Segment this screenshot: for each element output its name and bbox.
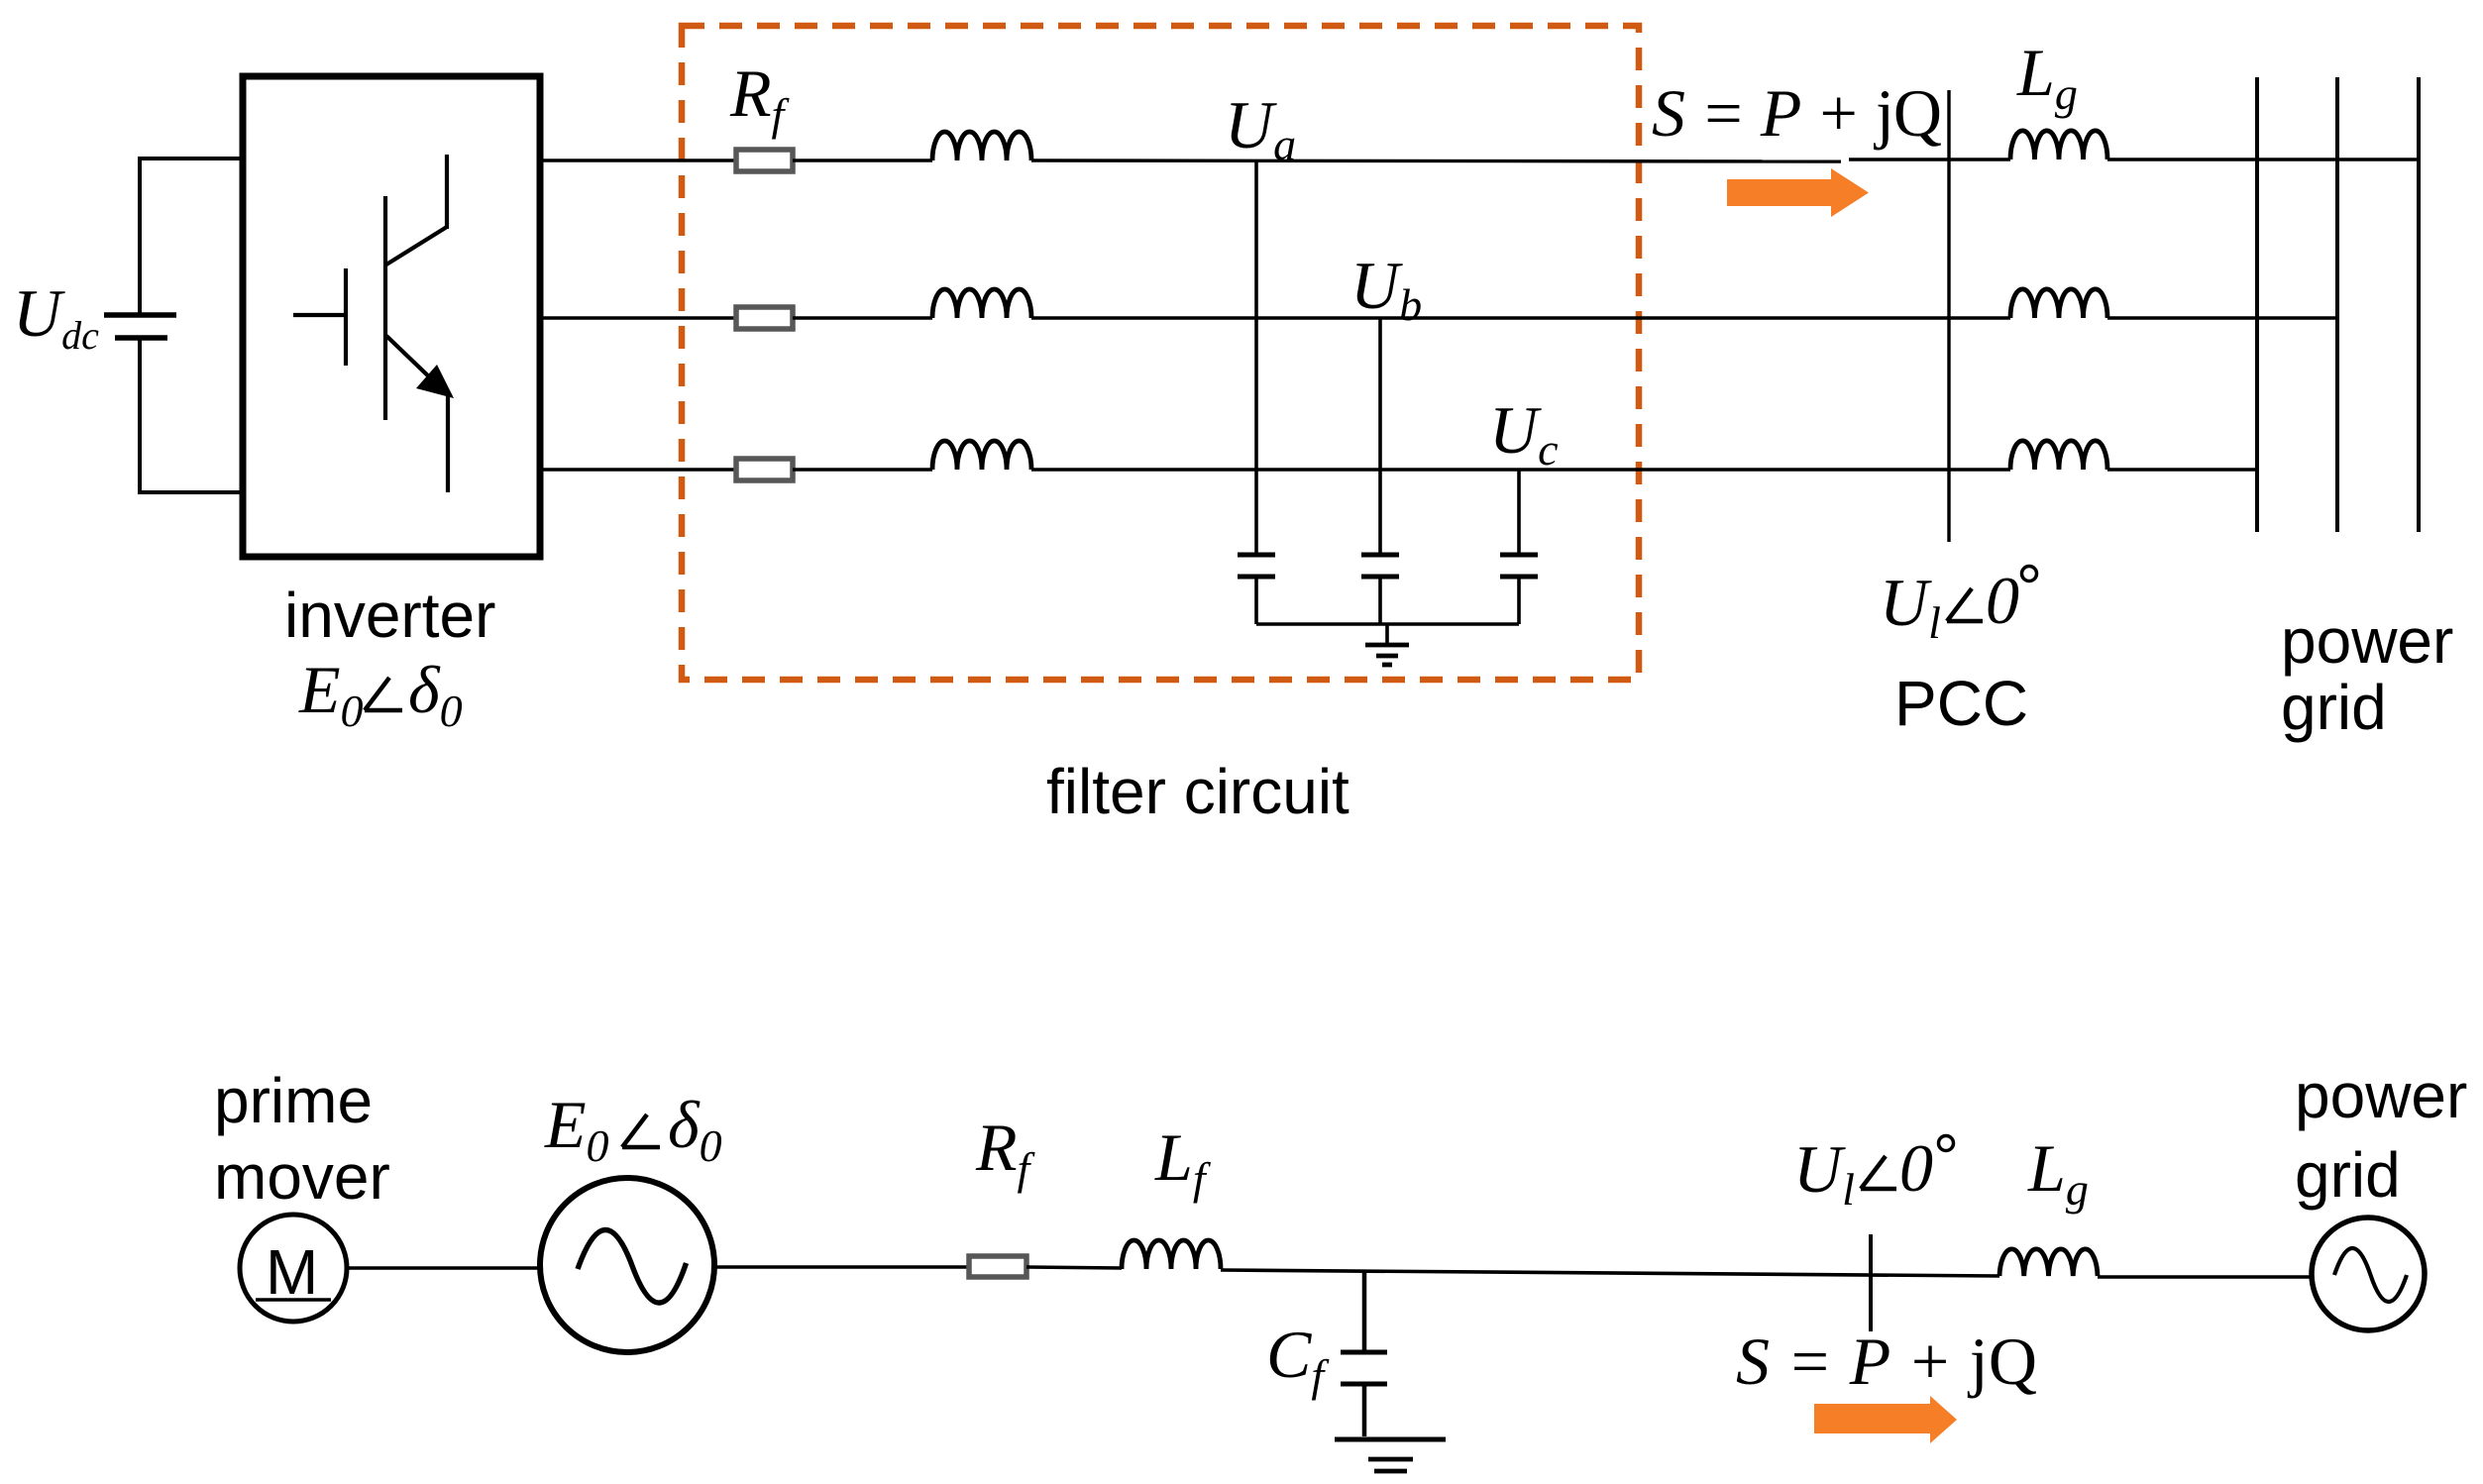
angle symbol of E0 — [365, 678, 402, 710]
power grid bus bar 3 — [2417, 77, 2421, 532]
inductor Lf phase C — [932, 441, 1031, 470]
svg-text:S = P + jQ: S = P + jQ — [1652, 75, 1942, 151]
wire DC link loop — [140, 159, 243, 492]
wire phase A PCC to grid inductor — [1849, 158, 2010, 160]
angle symbol of Ul bottom — [1861, 1156, 1896, 1189]
wire phase A from inverter — [540, 159, 736, 161]
capacitor Cf phase C — [1500, 470, 1538, 624]
AC source E0 circle — [540, 1178, 714, 1352]
wire Lf to Lg — [1221, 1270, 1999, 1276]
wire phase C to grid inductor — [1031, 468, 2010, 471]
ground (filter) — [1365, 624, 1409, 665]
wire phase A to inductor — [793, 159, 932, 161]
svg-text:S = P + jQ: S = P + jQ — [1736, 1324, 2037, 1399]
inductor Lg phase A — [2010, 131, 2107, 159]
inductor Lg (bottom) — [1999, 1249, 2098, 1276]
power grid sine wave — [2334, 1248, 2407, 1302]
svg-text:grid: grid — [2281, 672, 2387, 743]
wire phase B to grid inductor — [1031, 316, 2010, 319]
ground (bottom) — [1335, 1439, 1446, 1471]
svg-text:0: 0 — [1986, 563, 2019, 638]
capacitor Cf phase B — [1361, 318, 1399, 624]
wire phase A to PCC — [1031, 160, 1841, 161]
transistor IGBT symbol — [293, 155, 448, 492]
wire Rf to Lf — [1026, 1267, 1122, 1268]
angle symbol of Ul top — [1947, 588, 1983, 621]
svg-text:PCC: PCC — [1894, 668, 2028, 739]
resistor Rf phase A — [736, 150, 793, 171]
wire phase B to inductor — [793, 316, 932, 319]
svg-text:grid: grid — [2295, 1139, 2401, 1211]
inductor Lg phase C — [2010, 441, 2107, 470]
power grid bus bar 1 — [2255, 77, 2259, 532]
node PCC bus line — [1947, 90, 1950, 542]
inductor Lf phase A — [932, 132, 1031, 160]
angle symbol of E0 bottom — [622, 1114, 660, 1147]
wire capacitor star bus — [1256, 622, 1519, 626]
wire phase C to grid bus — [2107, 468, 2257, 472]
IGBT emitter arrowhead — [416, 365, 454, 398]
svg-text:prime: prime — [214, 1065, 373, 1136]
resistor Rf (bottom) — [969, 1256, 1026, 1277]
svg-text:0: 0 — [1899, 1130, 1933, 1206]
arrow power flow (top) — [1727, 168, 1869, 217]
wire phase A to grid bus — [2107, 158, 2419, 160]
svg-text:mover: mover — [214, 1141, 390, 1213]
svg-text:power: power — [2281, 605, 2453, 677]
svg-text:inverter: inverter — [284, 580, 495, 651]
prime mover machine M — [240, 1215, 347, 1322]
svg-text:M: M — [266, 1236, 318, 1308]
inverter block — [243, 76, 540, 557]
wire Lg to power grid — [2098, 1275, 2312, 1279]
wire phase B to grid bus — [2107, 316, 2337, 320]
inductor Lf (bottom) — [1122, 1240, 1221, 1269]
node PCC tick (bottom) — [1869, 1234, 1873, 1331]
inductor Lf phase B — [932, 289, 1031, 318]
wire phase C to inductor — [793, 468, 932, 471]
inductor Lg phase B — [2010, 289, 2107, 318]
arrow power flow (bottom) — [1814, 1396, 1957, 1443]
wire M to source — [347, 1266, 540, 1270]
svg-text:filter circuit: filter circuit — [1046, 756, 1349, 827]
resistor Rf phase C — [736, 459, 793, 480]
wire source to Rf — [714, 1265, 969, 1269]
wire phase C from inverter — [540, 468, 736, 471]
svg-text:power: power — [2295, 1060, 2467, 1131]
power grid bus bar 2 — [2335, 77, 2339, 532]
capacitor Cf phase A — [1238, 160, 1275, 624]
resistor Rf phase B — [736, 307, 793, 329]
battery Udc — [104, 315, 176, 338]
AC source sine wave — [578, 1229, 687, 1303]
power grid source circle — [2312, 1218, 2425, 1330]
filter circuit dashed box — [682, 26, 1639, 680]
wire phase B from inverter — [540, 316, 736, 319]
capacitor Cf (bottom) — [1341, 1272, 1387, 1436]
